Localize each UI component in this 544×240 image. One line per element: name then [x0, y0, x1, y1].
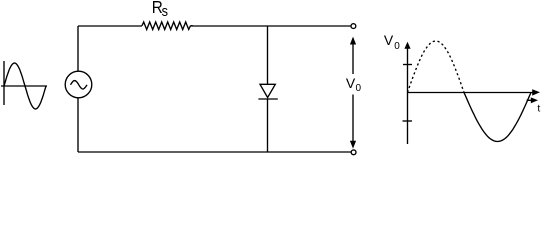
wire: bottom rail: [78, 151, 351, 153]
t-axis small arrow head: [531, 97, 538, 103]
V0 measurement arrow lower head: [350, 141, 356, 149]
graph horizontal axis: [408, 92, 534, 94]
graph axis tick upper: [403, 64, 412, 66]
t-axis small arrow shaft: [527, 99, 532, 101]
svg-text:0: 0: [356, 83, 362, 94]
terminal: top-right open circle: [351, 24, 356, 29]
V0 measurement arrow upper shaft: [352, 43, 354, 74]
svg-text:V: V: [384, 32, 394, 48]
wire: top rail middle segment: [191, 25, 352, 27]
resistor Rs zigzag: [142, 22, 191, 30]
input sine waveform symbol horizontal axis: [1, 85, 47, 87]
terminal: bottom-right open circle: [351, 150, 356, 155]
svg-text:s: s: [162, 2, 168, 19]
AC source V1 circle: [65, 71, 92, 98]
wire: diode branch upper: [267, 26, 269, 84]
graph vertical axis arrowhead: [404, 42, 410, 49]
wire: top-left vertical (source to top rail): [77, 26, 79, 71]
svg-text:V: V: [346, 75, 356, 91]
input sine waveform curve: [4, 63, 46, 109]
graph dotted positive half-cycle: [408, 41, 465, 93]
input sine waveform symbol vertical axis: [3, 61, 5, 105]
graph solid negative half-cycle: [464, 93, 531, 142]
graph vertical axis: [407, 48, 409, 144]
svg-text:0: 0: [394, 41, 400, 52]
diode D1 cathode bar: [258, 98, 277, 100]
AC source sine mark: [71, 81, 88, 89]
graph axis tick lower: [403, 120, 413, 122]
diode D1 triangle: [260, 84, 275, 97]
svg-text:t: t: [537, 102, 540, 114]
V0 measurement arrow upper head: [350, 37, 356, 45]
V0 measurement arrow lower shaft: [352, 95, 354, 143]
graph horizontal axis arrowhead: [532, 89, 540, 95]
wire: top rail left segment: [78, 25, 142, 27]
wire: diode branch lower: [267, 99, 269, 152]
wire: bottom-left vertical (source to bottom rail): [77, 98, 79, 152]
